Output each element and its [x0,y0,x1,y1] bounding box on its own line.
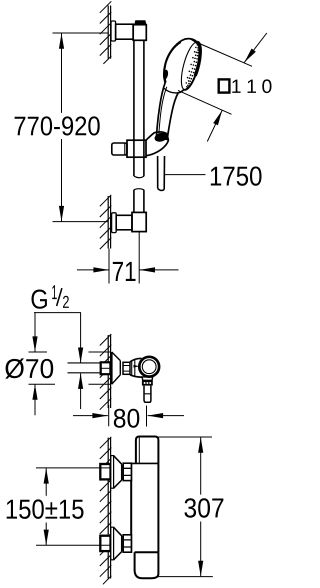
G1/2 dim line lower [80,374,82,410]
hand shower outline (body + handle) [157,39,201,140]
dim text 150+-15 [7,499,84,519]
wall bottom-bracket hatching [100,195,112,249]
bottom union nut [123,535,131,552]
dim square-110 arrow line upper [244,33,266,62]
dim 71 right arrow [140,269,179,271]
escutcheon flange (cone) [111,352,113,384]
top union nut [123,463,131,480]
rail end cap (black) [135,21,146,25]
dim 80 left arrow [73,415,108,417]
fraction denominator 2 [63,296,69,308]
spray mode button (black) [162,69,168,79]
dim square-110 extension line lower [178,90,232,114]
bottom bracket flange [112,213,117,233]
dim 307 extension lines [157,437,213,577]
body sides [131,463,158,552]
dim 71 right extension line [138,232,140,284]
top bracket arm [116,24,134,39]
top union escutcheon plate [111,456,114,489]
leader 1750 [165,174,206,176]
fraction numerator 1 [52,285,57,299]
mixer handle circle inner [142,360,156,374]
slider body [127,140,146,157]
outlet knurled nut (black with dots) [142,380,153,385]
temperature marker [134,365,140,368]
dim square-110 arrow line lower [207,110,222,141]
dim 770-920 line [61,33,63,221]
dim 71 left arrow [77,269,109,271]
top union escutcheon cone [114,456,122,489]
head-handle junction line [164,88,178,93]
dim text O70 [5,358,53,378]
dim text 110 [232,79,271,93]
wall top-bracket lines [108,6,110,59]
dim 80 right arrow [148,415,184,417]
slider knob face line [124,143,126,155]
dim 770-920 extension line bottom [53,221,109,223]
body neck collar lines [132,360,135,377]
dim text 80 [114,409,140,428]
slider holder cone [146,132,168,156]
thread block at wall [101,362,111,374]
mixer body neck [130,358,143,377]
bottom union escutcheon plate [111,527,114,560]
slider knob [112,143,127,155]
top bracket rail block [133,25,146,41]
dim 307 line lower + arrow [200,522,202,577]
dim 150 line lower + arrow [45,523,47,546]
dim 770-920 arrow down [59,206,64,222]
top union tail in wall [100,464,110,479]
head inner highlight line [165,42,181,82]
G1/2 bracket [34,312,81,314]
dim O70 line lower + arrow [34,384,36,415]
rail lower segment [134,190,144,213]
wall bottom-bracket lines [108,196,110,249]
hand shower face plate ellipse [178,40,205,91]
bottom bracket arm [116,215,132,230]
dim text 1750 [211,167,262,186]
fraction slash [57,288,62,306]
mixer handle circle outer [139,357,159,377]
pipe tail lines (G1/2 thread) [68,363,101,373]
handle inner highlight line [159,87,167,137]
wall top-bracket hatching [100,1,112,64]
wall bottom hatching [100,437,112,585]
body shoulder [131,462,158,464]
dim O70 line upper + arrow [34,313,36,352]
hand shower rim top cap (black) [189,39,201,50]
bottom union tail in wall [100,536,110,551]
wall bottom lines [108,438,110,579]
hand shower rim (black edge band) [195,42,200,76]
cap inner line [138,437,140,463]
rail upper segment [134,40,144,176]
bottom union escutcheon cone [114,527,122,560]
dim 80 wall extension line [108,405,110,426]
union nut [123,362,130,374]
spray face stipple dots [186,44,199,87]
G1/2 dim line upper [80,313,82,363]
top bracket flange [111,21,116,41]
dim text 307 [184,498,223,518]
wall middle lines [108,335,110,408]
dim 307 line upper + arrow [200,437,202,494]
hose from handle [158,156,165,190]
holder socket (black ellipse) [153,131,168,143]
dim 770-920 arrow up [59,33,64,49]
thermostat top cap [136,437,159,464]
dim text 71 [113,262,136,281]
dim 150 extension lines [36,468,110,545]
dim text 770-920 [15,116,100,135]
dim square-110 extension line upper [199,44,252,67]
wall middle hatching [100,334,112,410]
thread label G [32,290,47,309]
rail break curves [134,176,144,190]
dim O70 extension lines [29,352,111,384]
dim 80 outlet axis extension line [146,406,148,427]
body bottom block [135,552,159,578]
outlet cylinder [144,386,151,403]
outlet collar [142,377,153,380]
dim 770-920 extension line top [53,32,109,34]
bottom bracket rail block [132,212,146,231]
square symbol [219,79,230,92]
dim 71 left extension line [108,249,110,284]
dim 150 line upper + arrow [45,468,47,496]
